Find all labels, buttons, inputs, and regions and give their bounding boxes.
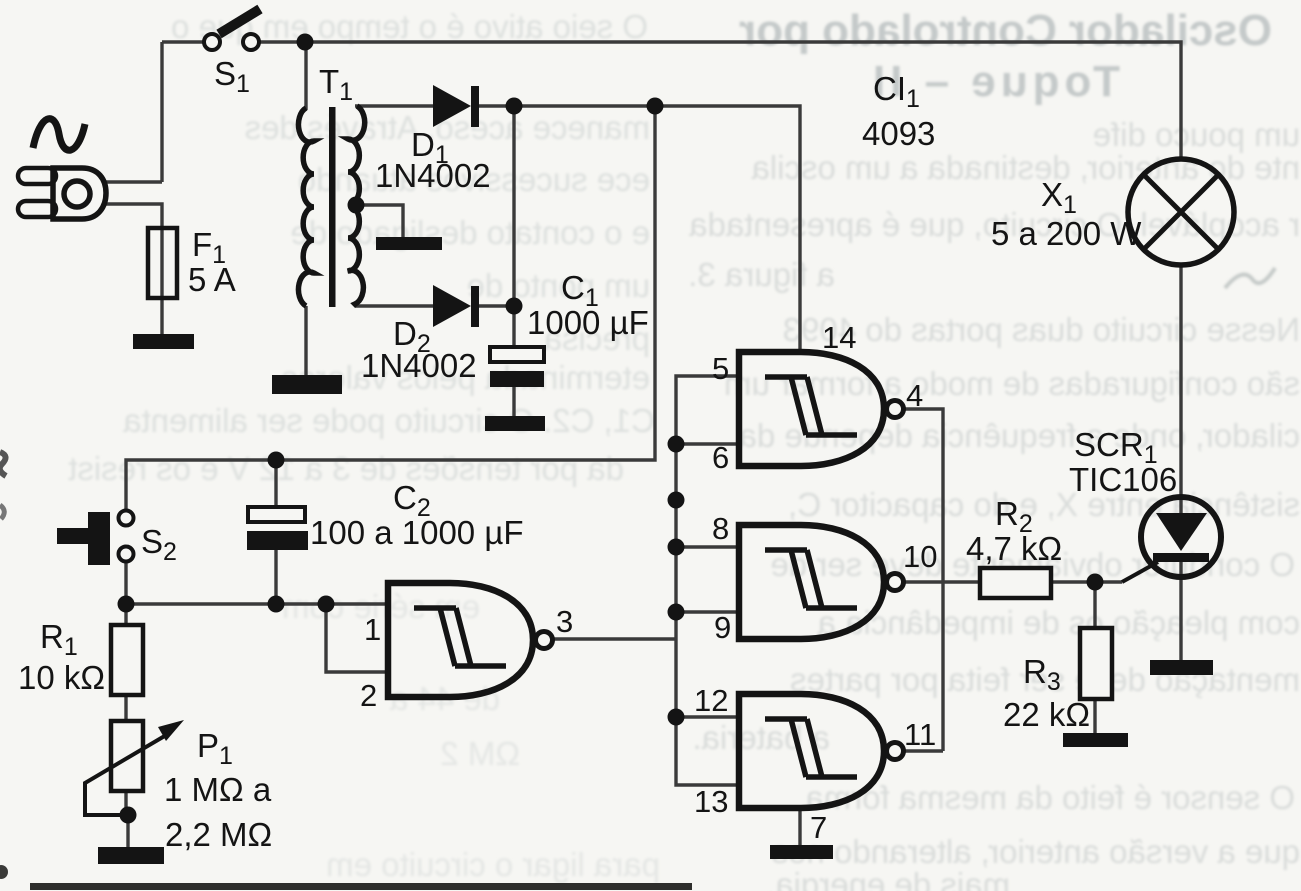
svg-text:R3: R3	[1023, 653, 1061, 696]
svg-text:e o contato desligado de: e o contato desligado de	[290, 214, 650, 251]
svg-text:S2: S2	[141, 523, 177, 566]
svg-text:4,7 kΩ: 4,7 kΩ	[966, 530, 1062, 567]
svg-text:12: 12	[694, 683, 728, 718]
svg-text:1 MΩ a: 1 MΩ a	[164, 771, 272, 808]
svg-text:que a versão anterior, alteran: que a versão anterior, alterando nos	[772, 833, 1300, 870]
svg-text:3: 3	[556, 604, 573, 639]
svg-text:com pleação os de impedância a: com pleação os de impedância a	[817, 604, 1300, 641]
svg-text:um pouco dife: um pouco dife	[1093, 116, 1300, 153]
svg-text:T1: T1	[319, 63, 353, 106]
svg-text:1N4002: 1N4002	[375, 157, 491, 194]
svg-text:Nesse circuito duas portas do: Nesse circuito duas portas do 4093	[783, 311, 1300, 348]
svg-text:8: 8	[712, 511, 729, 546]
svg-text:R1: R1	[40, 618, 78, 661]
svg-text:mais de energia.: mais de energia.	[766, 866, 1010, 891]
svg-text:5 a 200 W: 5 a 200 W	[991, 215, 1142, 252]
svg-text:1: 1	[364, 612, 381, 647]
svg-text:sistência entre X, e do capaci: sistência entre X, e do capacitor C,	[788, 486, 1300, 523]
svg-text:P1: P1	[197, 727, 233, 770]
svg-text:10 kΩ: 10 kΩ	[18, 659, 105, 696]
svg-text:5: 5	[712, 351, 729, 386]
svg-text:C1, C2. O circuito pode ser al: C1, C2. O circuito pode ser alimenta	[122, 402, 655, 439]
svg-text:11: 11	[904, 717, 936, 752]
svg-text:1N4002: 1N4002	[361, 347, 477, 384]
svg-text:TIC106: TIC106	[1069, 461, 1177, 498]
svg-text:13: 13	[694, 784, 728, 819]
svg-text:para ligar o circuito em: para ligar o circuito em	[326, 846, 660, 883]
svg-text:6: 6	[712, 440, 729, 475]
svg-text:Oscilador Controlado por: Oscilador Controlado por	[739, 6, 1272, 55]
svg-text:9: 9	[714, 610, 731, 645]
svg-text:um ponto de: um ponto de	[467, 267, 650, 304]
svg-text:1000 µF: 1000 µF	[527, 304, 649, 341]
svg-text:O sensor é feito da mesma form: O sensor é feito da mesma forma	[805, 779, 1295, 816]
svg-text:100 a 1000 µF: 100 a 1000 µF	[310, 514, 524, 551]
svg-text:S1: S1	[214, 55, 250, 98]
svg-text:nte do anterior, destinada a u: nte do anterior, destinada a um oscila	[751, 149, 1300, 186]
svg-text:2: 2	[360, 678, 377, 713]
svg-text:7: 7	[810, 810, 827, 845]
svg-text:5 A: 5 A	[188, 261, 236, 298]
svg-text:2,2 MΩ: 2,2 MΩ	[165, 816, 272, 853]
svg-text:4093: 4093	[862, 115, 935, 152]
svg-text:a figura 3.: a figura 3.	[688, 256, 835, 293]
svg-text:10: 10	[903, 539, 937, 574]
svg-text:da por tensões de 3 a 12 V e o: da por tensões de 3 a 12 V e os resist	[68, 450, 624, 487]
svg-text:14: 14	[822, 320, 856, 355]
svg-text:ΩM 2: ΩM 2	[440, 735, 520, 772]
svg-text:22 kΩ: 22 kΩ	[1003, 696, 1090, 733]
svg-text:4: 4	[906, 378, 923, 413]
